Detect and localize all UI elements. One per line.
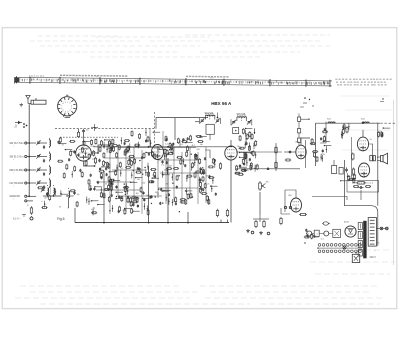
cathode resistor R4 — [94, 157, 96, 165]
wire into IFT1 — [195, 121, 200, 123]
decoupling stack C45 — [298, 124, 301, 133]
smoothing choke S22 — [361, 119, 369, 124]
screen resistor R32 — [352, 168, 354, 176]
grid resistor R31 — [352, 153, 354, 161]
wire osc vertical 1 — [103, 172, 105, 223]
wire IF vertical 1 — [148, 168, 150, 223]
osc coil L6 — [48, 185, 49, 196]
grid capacitor C12 — [82, 129, 85, 133]
terminal strip — [368, 218, 376, 247]
wire trimmer to coil L2 — [40, 156, 47, 158]
svg-text:25: 25 — [59, 207, 62, 209]
wire V4 top — [362, 122, 364, 137]
det upper cluster — [239, 128, 252, 143]
wire output down 2 — [360, 190, 362, 200]
text above dial 2 — [186, 75, 229, 78]
wire output down 1 — [343, 160, 345, 206]
junction marks — [304, 242, 318, 249]
svg-text:AZ41: AZ41 — [344, 221, 350, 224]
svg-text:GRAM PU: GRAM PU — [10, 195, 21, 198]
svg-text:S22: S22 — [361, 119, 366, 121]
text above dial 1 — [60, 74, 127, 77]
svg-text:10k: 10k — [244, 160, 248, 162]
wire V2 down — [230, 160, 232, 223]
bus drop x168 — [167, 222, 169, 224]
junction cluster top — [91, 124, 98, 131]
output enclosure line left — [351, 137, 353, 178]
svg-text:2n: 2n — [207, 183, 210, 185]
svg-text:220: 220 — [92, 158, 96, 160]
HT rail top — [316, 122, 381, 124]
V2 screen cap C22 — [239, 164, 241, 168]
scallop row joining wire — [318, 247, 362, 249]
label S15 — [237, 115, 247, 117]
svg-text:4k7: 4k7 — [169, 165, 173, 167]
wire mid horizontal 2 — [96, 189, 140, 191]
svg-text:UL: UL — [370, 139, 374, 141]
wire heater row — [306, 233, 333, 235]
svg-text:S0: S0 — [377, 243, 380, 245]
HT rail left riser — [315, 123, 317, 166]
tone network box 1 — [332, 160, 337, 174]
svg-text:LW 700-2000: LW 700-2000 — [10, 183, 24, 185]
wire antenna bus down — [28, 104, 30, 196]
mixer left components cluster — [57, 137, 97, 179]
title text HBX 66 A — [211, 101, 232, 106]
power cluster small parts — [304, 229, 325, 241]
wire V2 top — [230, 140, 232, 146]
output stage cluster — [340, 173, 356, 183]
eye resistor R25 — [263, 220, 265, 228]
wire AF horizontal — [236, 168, 300, 170]
wire avc dashed — [60, 136, 118, 138]
switch box 2 — [333, 229, 341, 237]
padding capacitor C2 — [43, 159, 45, 163]
padding capacitor C1 — [43, 145, 45, 149]
bus drop x221 — [220, 220, 222, 223]
resistor R26 — [255, 220, 257, 228]
ghost text bottom (bleed-through) — [15, 250, 395, 304]
resistor R22 — [275, 161, 277, 170]
wire terminal row 1 — [28, 142, 36, 144]
pilot lamp — [343, 246, 346, 249]
mains fuse F1 — [322, 222, 330, 225]
svg-text:2: 2 — [70, 110, 72, 112]
bus drop x188 — [187, 212, 189, 224]
wire IFT1 lead vertical — [217, 113, 219, 118]
svg-text:220 V: 220 V — [370, 256, 377, 259]
svg-text:kHz: kHz — [210, 78, 214, 80]
wire V4 anode to OPT — [369, 144, 373, 155]
switch wafer circle 2 — [324, 231, 329, 236]
svg-text:25: 25 — [62, 144, 65, 146]
svg-text:I: I — [14, 127, 15, 129]
voltage selector scallops row 2 — [318, 250, 361, 253]
AF tube V3 UBC41 (triode) — [296, 145, 306, 159]
label P1 — [266, 182, 269, 184]
decoupling cluster right — [310, 128, 332, 163]
stray marks mid — [300, 105, 314, 107]
wire osc col down — [68, 198, 70, 209]
svg-text:≈: ≈ — [13, 199, 15, 201]
svg-text:a: a — [67, 207, 69, 209]
terminal circle PU1 — [251, 231, 254, 234]
wire terminal row 4 — [28, 182, 36, 184]
wire V1 to IFT — [91, 145, 110, 153]
switch wafer circle 1 — [307, 231, 312, 236]
wire pot down — [259, 192, 261, 215]
svg-text:1: 1 — [71, 108, 73, 110]
eye grid resistor R24 — [280, 217, 282, 225]
wire trimmer to coil L4 — [40, 182, 47, 184]
caption Fig.5 — [57, 217, 65, 221]
wire af down — [253, 215, 269, 222]
svg-text:Fig.5: Fig.5 — [57, 217, 65, 221]
wire eye — [285, 190, 296, 212]
aerial coil L2 — [50, 152, 51, 162]
mixer stage components cluster — [97, 139, 124, 214]
svg-text:≈: ≈ — [13, 172, 15, 174]
wire terminal row 2 — [28, 156, 36, 158]
gram terminal circle — [25, 200, 33, 202]
screen line — [156, 118, 208, 129]
svg-text:S15 S16: S15 S16 — [237, 114, 247, 116]
page fold line right — [393, 100, 395, 265]
mains terminal X1 — [380, 227, 383, 230]
neg feedback wire — [312, 197, 347, 201]
label UL41 — [370, 139, 374, 141]
svg-text:25: 25 — [105, 183, 108, 185]
wire L-bend right — [320, 122, 326, 144]
padding capacitor C3 — [43, 172, 45, 176]
svg-text:R: R — [27, 205, 29, 207]
label UBC41 — [295, 142, 300, 144]
switch contact dots — [23, 123, 27, 128]
svg-text:220: 220 — [142, 182, 146, 184]
svg-text:8p: 8p — [77, 194, 80, 196]
bus left riser — [74, 208, 76, 223]
mains terminal X2 — [386, 227, 389, 230]
label UAF42 — [238, 147, 243, 150]
coupling cap C30 — [266, 168, 270, 170]
input terminal T3 (MW 170-580 m) — [10, 169, 30, 175]
svg-text:4k7: 4k7 — [44, 198, 48, 200]
label UM4 — [288, 195, 292, 197]
transformer core — [363, 221, 366, 258]
HT rail right riser — [377, 123, 379, 206]
osc padder C16 — [73, 191, 75, 195]
decoupling stack R41 — [298, 114, 301, 125]
IF transformer IFT2 — [231, 116, 252, 126]
mixer lower cluster — [86, 179, 101, 216]
tuning eye tube V6 UM4 — [291, 198, 302, 212]
secondary winding — [358, 241, 362, 257]
volume potentiometer P1 — [259, 181, 266, 191]
AF column wire — [275, 143, 277, 171]
HT wire to rectifier — [344, 206, 377, 246]
mains plug box — [352, 252, 359, 263]
svg-text:7: 7 — [61, 105, 63, 107]
trimmer capacitor CT1 — [36, 140, 40, 145]
wire trimmer to coil L1 — [40, 142, 47, 144]
IF amp components cluster — [159, 135, 207, 206]
aerial coil L1 — [50, 138, 51, 148]
resistor R14 — [226, 209, 228, 218]
label 220V — [370, 256, 377, 259]
tube socket pin diagram (underside view) — [58, 95, 77, 117]
antenna coupling unit S1 (box) — [31, 98, 46, 104]
input terminal T5 (GRAM PU) — [10, 195, 30, 201]
aerial coil L3 — [50, 165, 51, 175]
resistor R23 — [285, 159, 291, 161]
svg-text:HBX 66 A: HBX 66 A — [211, 101, 232, 106]
IF amplifier tube V8 UF41 — [152, 145, 164, 160]
chassis bus wire — [75, 222, 229, 224]
svg-text:S13 S14: S13 S14 — [205, 113, 215, 115]
junction dots row — [103, 117, 218, 148]
smoothing choke S21 — [327, 119, 335, 124]
wire IF vertical 2 — [167, 158, 169, 223]
svg-text:50p: 50p — [199, 137, 203, 139]
terminal circle PU2 — [267, 232, 270, 235]
oscillator components cluster — [124, 129, 161, 215]
detector components cluster — [199, 157, 217, 205]
osc mid cluster — [108, 137, 140, 212]
trimmer capacitor CT3 — [36, 167, 40, 172]
svg-text:50: 50 — [86, 130, 89, 132]
speaker field cluster — [378, 127, 391, 137]
dial strip caption text (right, faint) — [335, 79, 391, 85]
output tube V4 UL41 — [357, 137, 368, 151]
svg-text:10k: 10k — [196, 149, 200, 151]
input terminal T2 (SW 51-170 m) — [10, 155, 30, 161]
bus drop x228 — [227, 220, 229, 223]
output transformer S23 — [370, 155, 376, 161]
wire mains — [376, 228, 385, 230]
IF tube V2 UAF42 — [225, 146, 237, 160]
decoupling stack R42 — [298, 133, 301, 145]
wire grid top — [83, 133, 85, 145]
wire antenna to coupling box — [28, 102, 31, 104]
label mains — [374, 249, 376, 252]
antenna A1 — [26, 96, 30, 102]
interconnecting wire mesh — [96, 128, 206, 214]
resistor R13 — [216, 209, 218, 218]
wire terminal row 5 — [28, 195, 36, 197]
svg-text:≈: ≈ — [13, 159, 15, 161]
resistor R6 — [27, 205, 33, 215]
label S15b — [237, 114, 247, 116]
svg-text:S21: S21 — [327, 119, 332, 121]
svg-text:SW 16.7-51m: SW 16.7-51m — [10, 143, 24, 145]
wire top feed — [174, 118, 176, 140]
input terminal T1 (SW 16.7-51m) — [10, 142, 30, 148]
IFT2 screen box — [233, 128, 239, 134]
text 6,3V — [13, 218, 21, 221]
small text right — [377, 243, 380, 245]
tuning dial scale strip — [14, 75, 332, 88]
trimmer capacitor CT2 — [36, 154, 40, 159]
coil core dashes — [50, 187, 52, 195]
phase tube V5 — [358, 163, 369, 177]
marks near 6,3V — [22, 215, 26, 217]
svg-text:M: M — [96, 76, 98, 78]
wire anode V1 — [84, 161, 95, 166]
cathode cap C14 — [98, 159, 100, 163]
padding capacitor C4 — [43, 185, 45, 189]
svg-text:T R Å D L Ø S: T R Å D L Ø S — [29, 75, 45, 78]
rail dropper resistor R40 — [346, 126, 348, 133]
svg-text:3: 3 — [71, 105, 73, 107]
svg-text:1M: 1M — [136, 193, 139, 195]
counterpoise marks — [20, 103, 24, 107]
input terminal T4 (LW 700-2000) — [10, 182, 30, 188]
aerial coil L4 — [50, 178, 51, 188]
label AZ41 — [344, 221, 350, 224]
wire terminal row 3 — [28, 169, 36, 171]
osc coil cluster extra — [37, 187, 80, 210]
cathode resistor R33 — [356, 182, 366, 185]
svg-text:0,1: 0,1 — [128, 152, 132, 154]
resistor R21 — [275, 146, 277, 155]
svg-text:1M: 1M — [137, 179, 140, 181]
ground sym 2 — [259, 231, 263, 235]
speaker wires — [377, 157, 381, 161]
switch box 1 — [314, 230, 319, 236]
svg-text:UM: UM — [288, 195, 292, 197]
grid resistor R3 — [77, 129, 79, 138]
wire mid horizontal — [118, 147, 196, 149]
svg-text:a: a — [41, 201, 43, 203]
IFT1 screen box — [206, 124, 214, 140]
grid bus wire — [93, 146, 232, 148]
lamp/jack circle — [30, 216, 33, 220]
loudspeaker LS — [381, 153, 388, 164]
phono wires — [281, 206, 307, 215]
rectifier tube V7 AZ41 — [345, 226, 356, 237]
svg-text:SW 51-170 m: SW 51-170 m — [10, 156, 24, 158]
wire to V3 grid — [236, 151, 296, 153]
osc coil L7 — [54, 185, 55, 196]
osc coil L8 — [69, 188, 70, 198]
svg-text:≈: ≈ — [13, 185, 15, 187]
box contents — [353, 186, 371, 188]
svg-text:6,3 V ~: 6,3 V ~ — [13, 218, 21, 221]
output top cluster — [341, 123, 350, 139]
primary winding — [358, 223, 362, 239]
junction node a — [94, 152, 99, 167]
terminal strip contacts — [370, 220, 375, 244]
wire stack to right — [301, 119, 310, 120]
bus drop x104 — [103, 222, 105, 224]
svg-text:1M: 1M — [266, 182, 269, 184]
wire det diode — [205, 150, 210, 158]
ghost text top (bleed-through) — [30, 35, 330, 57]
svg-text:220: 220 — [315, 237, 319, 239]
stray marks upper right — [303, 97, 384, 103]
tuning gang dashed link horizontal — [55, 128, 156, 130]
IF transformer IFT1 — [200, 114, 221, 124]
label V1 — [91, 146, 96, 148]
svg-text:0,1: 0,1 — [180, 144, 184, 146]
tone network box 2 — [339, 168, 343, 175]
bus drop x148 — [148, 222, 150, 224]
svg-text:8p: 8p — [200, 144, 203, 146]
mixer tube V1 UCH42 — [76, 145, 92, 161]
V2 cathode resistor R11 — [219, 162, 221, 169]
svg-text:a: a — [317, 234, 319, 236]
HT rail dash-dot continuation — [368, 122, 395, 124]
svg-text:0,1: 0,1 — [165, 143, 169, 145]
osc trimmer CT6 — [41, 187, 45, 192]
voltage selector scallops row 1 — [318, 244, 361, 247]
ghost text right (bleed-through) — [338, 96, 392, 150]
label S13b — [205, 113, 215, 115]
output dashed box — [347, 181, 379, 193]
label S13 — [205, 114, 215, 116]
svg-text:MW 170-580 m: MW 170-580 m — [10, 170, 26, 172]
AF lower cluster — [235, 146, 252, 175]
trimmer capacitor CT4 — [36, 180, 40, 185]
wire trimmer to coil L3 — [40, 169, 47, 171]
svg-text:0,1: 0,1 — [161, 164, 165, 166]
wire osc bottom — [43, 195, 60, 197]
coupling cap C31 — [288, 151, 292, 153]
wire IFT2 lead — [254, 128, 256, 134]
cathode bypass C43 — [358, 186, 363, 189]
ground sym 1 — [246, 229, 250, 233]
wire V3 anode — [301, 138, 310, 145]
wave-change switch indicator — [14, 121, 22, 129]
tuning gang dashed link vertical — [154, 112, 156, 146]
wire right column — [305, 140, 307, 168]
label 50p — [86, 130, 89, 132]
tone cap C41 — [345, 167, 348, 172]
svg-text:0,1: 0,1 — [321, 238, 325, 240]
AF components cluster — [239, 134, 259, 172]
svg-text:≈: ≈ — [13, 145, 15, 147]
